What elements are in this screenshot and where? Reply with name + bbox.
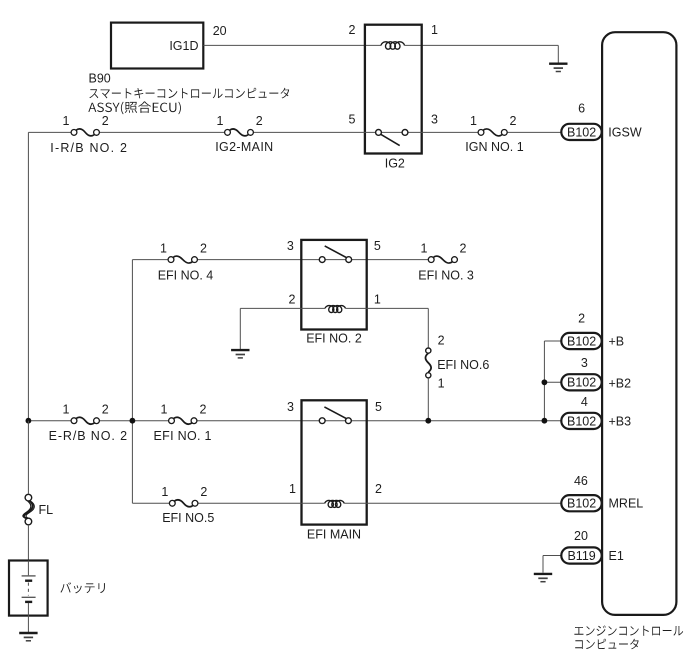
pin 2 of EFI NO. 1	[200, 402, 207, 416]
pin 2 of I-R/B NO. 2	[102, 114, 109, 128]
relay EFI MAIN box	[302, 400, 367, 524]
svg-text:EFI NO. 4: EFI NO. 4	[158, 268, 214, 282]
coil IG2	[381, 42, 405, 49]
svg-text:1: 1	[374, 293, 381, 307]
label smart key control computer	[89, 88, 289, 99]
svg-text:B119: B119	[567, 549, 595, 563]
battery cell symbol	[22, 561, 36, 633]
svg-text:1: 1	[63, 114, 70, 128]
pin 5 of EFI MAIN	[375, 400, 382, 414]
wire main IGSW row	[28, 131, 561, 133]
svg-text:2: 2	[510, 114, 517, 128]
svg-text:2: 2	[289, 293, 296, 307]
svg-text:5: 5	[374, 239, 381, 253]
svg-text:3: 3	[581, 356, 588, 370]
svg-text:2: 2	[349, 23, 356, 37]
pin 2 of IG2	[349, 23, 356, 37]
pin 2 of E-R/B NO. 2	[102, 402, 109, 416]
pin 5 of EFI NO. 2	[374, 239, 381, 253]
svg-text:2: 2	[375, 482, 382, 496]
svg-text:20: 20	[213, 24, 227, 38]
svg-text:EFI NO. 1: EFI NO. 1	[154, 429, 212, 443]
pin 20 of IG1D	[213, 24, 227, 38]
label IG2	[385, 156, 405, 170]
fusible link FL	[23, 494, 34, 524]
pin 1 of EFI NO. 4	[160, 241, 167, 255]
svg-text:IG1D: IG1D	[169, 39, 198, 53]
svg-text:2: 2	[102, 114, 109, 128]
wire main +B row	[28, 420, 561, 422]
pin 2 of EFI MAIN	[375, 482, 382, 496]
fuse EFI NO. 4	[168, 256, 197, 263]
label EFI NO.6	[437, 358, 489, 372]
wire +B riser	[544, 341, 561, 421]
svg-text:IGSW: IGSW	[608, 125, 642, 139]
svg-text:46: 46	[574, 474, 588, 488]
connector B102 +B3	[561, 413, 601, 429]
svg-text:B102: B102	[567, 376, 596, 390]
svg-text:2: 2	[438, 334, 445, 348]
pin 1 of EFI NO.5	[161, 485, 168, 499]
svg-text:B102: B102	[567, 414, 596, 428]
pin 3 of EFI MAIN	[287, 400, 294, 414]
svg-text:1: 1	[421, 241, 428, 255]
label EFI NO.5	[162, 511, 214, 525]
pin 1 of IG2-MAIN	[217, 114, 224, 128]
node +B	[609, 334, 625, 348]
pin 46 of MREL	[574, 474, 588, 488]
fuse IGN NO. 1	[478, 129, 507, 136]
label B90	[89, 72, 111, 86]
pin 20 of E1	[574, 529, 588, 543]
relay EFI NO. 2 box	[301, 240, 366, 330]
label IGN NO. 1	[465, 140, 523, 154]
svg-text:EFI NO.5: EFI NO.5	[162, 511, 214, 525]
svg-text:EFI NO.6: EFI NO.6	[437, 358, 489, 372]
label battery	[60, 582, 104, 593]
coil EFI MAIN	[325, 500, 345, 507]
wire IG1D pin20 to IG2 coil pin2	[203, 44, 381, 46]
wire IG2 coil pin1 to ground	[405, 45, 559, 63]
fuse EFI NO.5	[169, 500, 198, 507]
svg-text:4: 4	[581, 395, 588, 409]
connector B102 MREL	[561, 495, 601, 511]
node +B2	[609, 376, 632, 390]
label engine control computer line1	[574, 625, 683, 635]
pin 2 of EFI NO. 4	[200, 241, 207, 255]
pin 2 of +B	[578, 312, 585, 326]
junction at EFI branch vertical	[130, 418, 136, 424]
svg-text:1: 1	[438, 377, 445, 391]
label EFI NO. 3	[418, 268, 474, 282]
relay IG2 box	[365, 25, 422, 154]
pin 3 of EFI NO. 2	[287, 239, 294, 253]
svg-text:3: 3	[287, 239, 294, 253]
pin 1 of EFI NO. 2	[374, 293, 381, 307]
svg-text:1: 1	[289, 482, 296, 496]
fuse I-R/B NO. 2	[71, 129, 99, 136]
label ASSY(shougou ECU)	[88, 101, 181, 114]
svg-text:2: 2	[200, 241, 207, 255]
label IG1D	[169, 39, 198, 53]
svg-text:1: 1	[431, 23, 438, 37]
label EFI NO. 2	[306, 332, 362, 346]
svg-text:FL: FL	[39, 503, 54, 517]
pin 1 of EFI NO. 3	[421, 241, 428, 255]
svg-text:20: 20	[574, 529, 588, 543]
wire left battery feed vertical	[27, 132, 29, 420]
label EFI NO. 1	[154, 429, 212, 443]
ground at EFI NO. 2 coil	[231, 350, 249, 358]
pin 2 of EFI NO.5	[200, 485, 207, 499]
ground at E1	[534, 574, 552, 582]
fuse EFI NO.6	[425, 348, 431, 378]
junction at +B3 row	[542, 418, 548, 424]
pin 1 of EFI NO.6	[438, 377, 445, 391]
label engine control computer line2	[575, 639, 638, 650]
svg-text:6: 6	[578, 102, 585, 116]
label EFI MAIN	[307, 528, 361, 542]
wire left vertical lower	[27, 421, 29, 561]
svg-text:2: 2	[460, 241, 467, 255]
junction at EFI NO.6	[425, 418, 431, 424]
junction at battery vertical	[26, 418, 32, 424]
fuse E-R/B NO. 2	[71, 417, 99, 424]
pin 4 of +B3	[581, 395, 588, 409]
svg-text:B102: B102	[567, 334, 596, 348]
pin 2 of IG2-MAIN	[256, 114, 263, 128]
svg-text:MREL: MREL	[609, 497, 644, 511]
wire +B2 stub	[544, 381, 561, 383]
connector B102 IGSW	[561, 124, 601, 140]
svg-text:EFI NO. 3: EFI NO. 3	[418, 268, 474, 282]
pin 1 of EFI MAIN	[289, 482, 296, 496]
svg-text:B102: B102	[567, 497, 596, 511]
pin 2 of EFI NO. 2	[289, 293, 296, 307]
ground at battery	[19, 633, 37, 641]
node MREL	[609, 497, 644, 511]
svg-text:IG2-MAIN: IG2-MAIN	[215, 140, 273, 154]
fuse EFI NO. 3	[428, 256, 457, 263]
svg-text:3: 3	[431, 113, 438, 127]
wire E1 to ground	[543, 556, 562, 573]
svg-text:5: 5	[349, 113, 356, 127]
node E1	[609, 549, 624, 563]
switch EFI MAIN	[319, 407, 351, 424]
wire EFI NO.6 to +B3 row	[427, 378, 429, 421]
connector B102 +B	[561, 333, 601, 349]
pin 5 of IG2	[349, 113, 356, 127]
svg-text:2: 2	[200, 485, 207, 499]
pin 3 of +B2	[581, 356, 588, 370]
label FL	[39, 503, 54, 517]
svg-text:+B3: +B3	[609, 414, 632, 428]
svg-text:B90: B90	[89, 72, 111, 86]
label E-R/B NO. 2	[49, 429, 128, 443]
svg-text:1: 1	[217, 114, 224, 128]
pin 2 of IGN NO. 1	[510, 114, 517, 128]
svg-text:IG2: IG2	[385, 156, 405, 170]
svg-text:1: 1	[470, 114, 477, 128]
svg-text:5: 5	[375, 400, 382, 414]
svg-text:I-R/B NO. 2: I-R/B NO. 2	[50, 141, 128, 155]
pin 3 of IG2	[431, 113, 438, 127]
node IGSW	[608, 125, 642, 139]
svg-text:B102: B102	[567, 125, 596, 139]
svg-text:EFI MAIN: EFI MAIN	[307, 528, 361, 542]
node +B3	[609, 414, 632, 428]
svg-text:2: 2	[256, 114, 263, 128]
svg-text:E-R/B NO. 2: E-R/B NO. 2	[49, 429, 128, 443]
pin 1 of IG2	[431, 23, 438, 37]
pin 1 of IGN NO. 1	[470, 114, 477, 128]
pin 1 of I-R/B NO. 2	[63, 114, 70, 128]
wire EFI NO.4 row	[132, 259, 428, 261]
label IG2-MAIN	[215, 140, 273, 154]
svg-text:+B2: +B2	[609, 376, 632, 390]
connector box B90 IG1D	[111, 23, 203, 69]
ECU box	[602, 32, 676, 615]
fuse IG2-MAIN	[225, 129, 254, 136]
pin 6 of IGSW	[578, 102, 585, 116]
svg-text:2: 2	[102, 402, 109, 416]
wire EFI NO. 2 coil pin2 to ground	[240, 308, 325, 349]
svg-text:E1: E1	[609, 549, 624, 563]
svg-text:2: 2	[578, 312, 585, 326]
svg-text:1: 1	[63, 402, 70, 416]
pin 2 of EFI NO.6	[438, 334, 445, 348]
label EFI NO. 4	[158, 268, 214, 282]
svg-text:2: 2	[200, 402, 207, 416]
coil EFI NO. 2	[325, 306, 346, 313]
ground at IG2 coil	[549, 64, 567, 72]
switch EFI NO. 2	[319, 246, 351, 263]
fuse EFI NO. 1	[169, 417, 197, 424]
switch IG2	[376, 130, 408, 146]
svg-text:3: 3	[287, 400, 294, 414]
wire EFI NO. 2 coil pin1 to EFI NO.6	[346, 308, 429, 347]
wire EFI NO.5 / MREL row	[132, 502, 561, 504]
pin 1 of E-R/B NO. 2	[63, 402, 70, 416]
pin 1 of EFI NO. 1	[161, 402, 168, 416]
svg-text:+B: +B	[609, 334, 625, 348]
svg-text:1: 1	[161, 485, 168, 499]
svg-text:1: 1	[160, 241, 167, 255]
junction at +B2 stub	[542, 379, 548, 385]
pin 2 of EFI NO. 3	[460, 241, 467, 255]
battery box	[9, 561, 48, 616]
svg-text:EFI NO. 2: EFI NO. 2	[306, 332, 362, 346]
label I-R/B NO. 2	[50, 141, 128, 155]
connector B119 E1	[561, 547, 601, 563]
connector B102 +B2	[561, 374, 601, 390]
wire EFI NO.4 branch vertical	[131, 260, 133, 504]
svg-text:1: 1	[161, 402, 168, 416]
svg-text:IGN NO. 1: IGN NO. 1	[465, 140, 523, 154]
